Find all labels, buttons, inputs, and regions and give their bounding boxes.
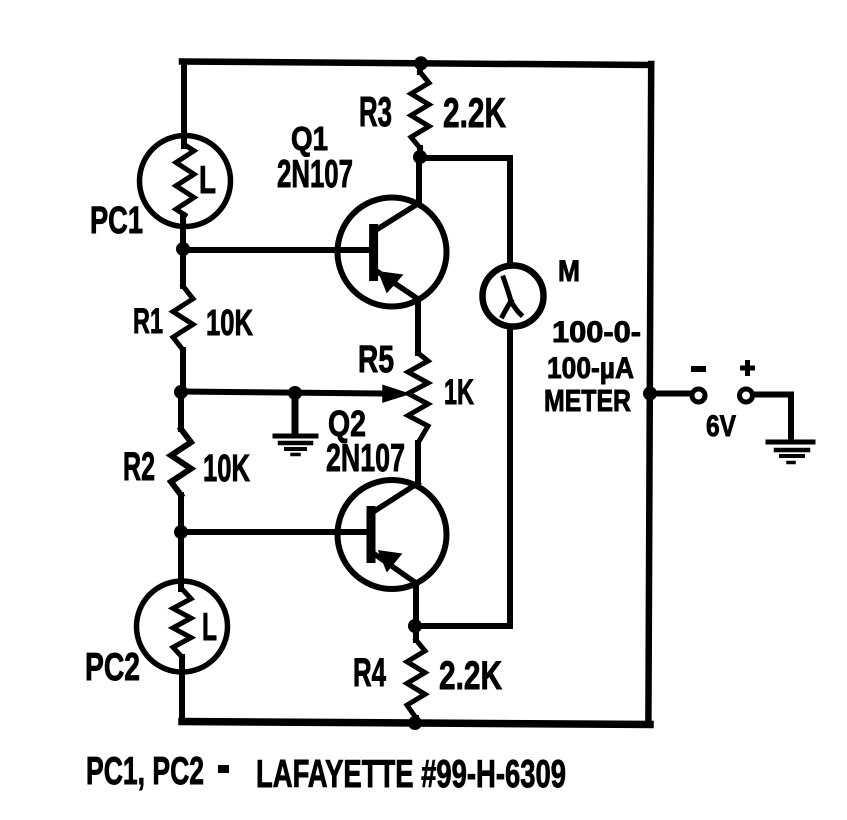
node R3 bottom <box>413 150 427 164</box>
svg-text:M: M <box>558 255 580 288</box>
wire mid ground stub <box>292 393 299 433</box>
node R1 bottom <box>174 385 188 399</box>
wire meter branch top <box>420 158 510 262</box>
wire R3 top lead <box>417 62 423 72</box>
potentiometer R5 <box>408 353 428 443</box>
wire R2 to Q2-base node <box>178 495 184 534</box>
svg-text:6V: 6V <box>706 410 736 443</box>
resistor R1 <box>173 286 193 350</box>
wire left rail PC1-node to R1 <box>180 250 186 286</box>
svg-text:10K: 10K <box>206 302 253 343</box>
ground right <box>768 442 813 463</box>
svg-text:R4: R4 <box>353 651 386 695</box>
node R2/Q2 base <box>174 525 188 539</box>
svg-text:R3: R3 <box>359 88 392 135</box>
resistor R3 <box>411 72 429 148</box>
R5 wiper arrow <box>383 386 409 402</box>
svg-text:L: L <box>199 159 216 202</box>
meter needle <box>503 278 521 316</box>
wire right rail <box>648 64 651 723</box>
wire node to Q1 collector <box>416 157 422 204</box>
node PC1/Q1 base <box>176 242 190 256</box>
node ground mid <box>288 386 302 400</box>
svg-text:100-µA: 100-µA <box>547 352 634 385</box>
caption equals dot <box>218 765 229 773</box>
svg-text:PC2: PC2 <box>85 646 140 689</box>
terminal plus <box>740 389 753 402</box>
svg-text:2.2K: 2.2K <box>439 654 502 698</box>
photocell PC1 <box>140 136 231 227</box>
wire battery plus to ground <box>753 395 791 438</box>
svg-text:R5: R5 <box>358 339 394 381</box>
wire Q2 base <box>181 529 367 535</box>
svg-text:2.2K: 2.2K <box>443 89 506 136</box>
wire R4 top lead <box>413 626 419 640</box>
node R4 bottom <box>408 716 422 730</box>
svg-text:10K: 10K <box>203 448 250 490</box>
transistor Q1 <box>338 198 447 307</box>
svg-text:R2: R2 <box>123 445 155 489</box>
svg-text:METER: METER <box>544 383 631 418</box>
wire mid node to R2 <box>178 392 184 429</box>
plus sign <box>743 363 753 374</box>
ground middle <box>275 436 316 455</box>
svg-text:Q1: Q1 <box>291 120 328 157</box>
svg-text:L: L <box>202 606 217 649</box>
wire Q1 base <box>183 247 370 253</box>
wire PC2 bottom to bottom rail <box>179 657 185 722</box>
svg-text:2N107: 2N107 <box>277 153 353 196</box>
wire R5 to Q2 collector <box>415 443 421 482</box>
transistor Q2 <box>338 480 447 589</box>
meter M <box>483 266 544 327</box>
svg-text:LAFAYETTE #99-H-6309: LAFAYETTE #99-H-6309 <box>256 753 566 796</box>
wire left rail top (to PC1) <box>181 62 187 146</box>
wire meter branch bottom <box>416 328 510 626</box>
svg-text:R1: R1 <box>133 302 163 341</box>
wire node to PC2 <box>178 532 184 589</box>
photocell PC2 <box>137 581 228 672</box>
wire R1 to mid node <box>180 350 186 392</box>
wire top rail <box>182 62 651 66</box>
wire bottom rail <box>182 722 650 725</box>
wire mid horizontal to R5 wiper <box>181 392 384 394</box>
svg-text:1K: 1K <box>444 373 474 412</box>
wire PC1 bottom to node <box>180 215 186 252</box>
wire Q1 emitter to R5 <box>415 299 421 353</box>
node Q2 emitter/R4 <box>408 619 422 633</box>
node R3 top <box>414 56 428 70</box>
wire R3 bottom to node <box>417 148 423 158</box>
svg-text:PC1: PC1 <box>90 200 143 242</box>
resistor R2 <box>171 429 191 495</box>
minus sign <box>694 366 703 372</box>
wire Q2 emitter to node <box>413 583 419 626</box>
wire battery minus lead <box>650 391 691 397</box>
resistor R4 <box>407 640 425 718</box>
svg-text:2N107: 2N107 <box>326 437 405 480</box>
node battery <box>643 387 657 401</box>
svg-text:100-0-: 100-0- <box>552 316 641 349</box>
wire R4 bottom lead <box>413 718 419 723</box>
svg-text:PC1, PC2: PC1, PC2 <box>86 750 204 793</box>
terminal minus <box>692 389 705 402</box>
